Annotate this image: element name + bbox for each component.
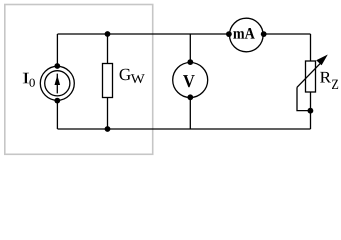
current source I0 inner circle [45, 71, 70, 96]
voltmeter label V [183, 75, 195, 87]
junction dot: I0 top [54, 63, 60, 69]
junction dot: GW top [105, 31, 111, 37]
rheostat RZ wiper arrowhead [316, 55, 328, 66]
junction dot: mA right [261, 31, 267, 37]
junction dot: V bottom [187, 94, 193, 100]
rheostat RZ body [306, 61, 316, 92]
wire: left branch vertical [56, 34, 58, 129]
milliammeter label mA [233, 28, 254, 39]
source network boundary box (gray) [5, 5, 153, 155]
wire: GW branch vertical [107, 34, 109, 129]
current source arrow [55, 74, 61, 94]
label I0 [23, 73, 29, 84]
current source I0 outer circle [40, 66, 74, 100]
junction dot: mA left [226, 31, 232, 37]
junction dot: V top [187, 59, 193, 65]
wire: V branch vertical [189, 34, 191, 129]
wire: right branch vertical [310, 34, 312, 129]
junction dot: RZ bottom [308, 108, 314, 114]
wire: top horizontal [58, 33, 311, 35]
wire: bottom horizontal [58, 128, 311, 130]
voltmeter V circle [173, 63, 208, 98]
label RZ [320, 72, 331, 83]
label GW [120, 69, 131, 81]
junction dot: GW bottom [105, 126, 111, 132]
milliammeter mA circle [230, 18, 264, 52]
wire: RZ wiper return [297, 87, 311, 110]
resistor GW [103, 64, 113, 98]
junction dot: I0 bottom [54, 98, 60, 104]
rheostat RZ wiper arrow line [297, 63, 321, 87]
